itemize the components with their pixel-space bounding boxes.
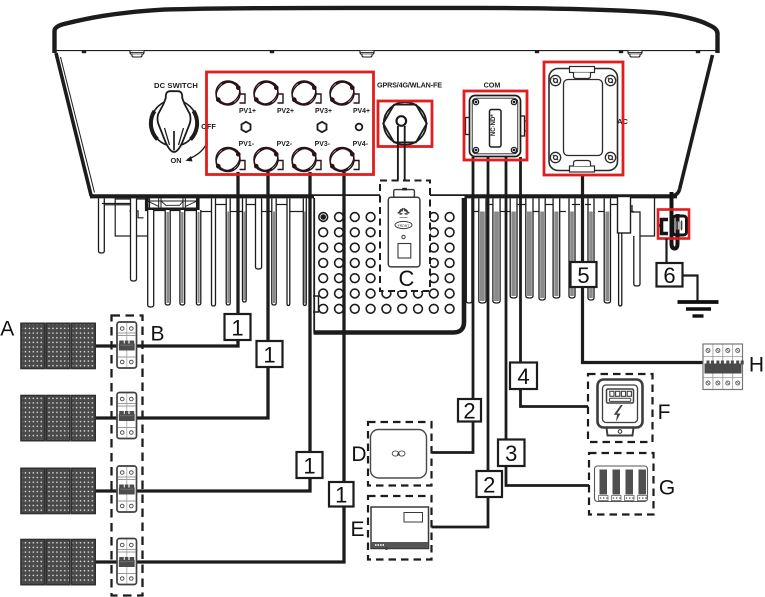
PV panel group 3	[21, 468, 95, 513]
dashed box B (DC breakers)	[112, 316, 143, 596]
PV panel group 4	[21, 540, 95, 585]
svg-text:PV4-: PV4-	[353, 141, 369, 148]
svg-text:F: F	[658, 401, 671, 424]
ground clamp red callout box	[658, 210, 689, 239]
svg-text:4: 4	[517, 364, 529, 389]
svg-text:5: 5	[577, 263, 589, 288]
svg-text:2: 2	[463, 399, 475, 424]
DC breaker 2	[117, 393, 137, 439]
mounting nuts between PV rows	[242, 122, 251, 132]
svg-text:3: 3	[505, 441, 517, 466]
dashed box C	[380, 181, 430, 292]
ground clamp	[659, 216, 687, 235]
svg-text:C: C	[399, 266, 415, 291]
logger device E	[371, 507, 429, 550]
dashed box G	[589, 453, 654, 515]
earth ground symbol	[678, 302, 719, 316]
dashed box F	[588, 374, 653, 442]
svg-text:6: 6	[663, 263, 675, 288]
COM wire to D (monitoring)	[432, 157, 474, 453]
svg-text:FRONT: FRONT	[398, 224, 410, 228]
svg-text:PV2+: PV2+	[277, 108, 294, 115]
PV panel group 2	[21, 396, 95, 441]
mounting bracket recess	[147, 195, 198, 209]
COM wire to G (CT)	[506, 157, 589, 486]
wire string 4 (breaker to PV4-)	[95, 172, 344, 562]
svg-text:1: 1	[303, 453, 315, 478]
svg-text:B: B	[150, 323, 164, 346]
AC red callout box	[544, 62, 623, 175]
box 4 (to F)	[510, 363, 537, 390]
box 2 (to D)	[458, 399, 481, 424]
COM wire to F (meter)	[521, 157, 589, 407]
svg-text:G: G	[659, 477, 675, 500]
box 1 (string 2)	[257, 341, 283, 367]
vent holes grid	[319, 213, 454, 314]
svg-text:DC SWITCH: DC SWITCH	[154, 81, 198, 90]
DC switch knob	[151, 91, 197, 152]
svg-text:PV2-: PV2-	[277, 141, 293, 148]
PV terminals red callout box	[207, 72, 374, 175]
svg-text:NC·ND*: NC·ND*	[491, 114, 497, 136]
box 6	[657, 263, 683, 288]
dashed box E	[368, 496, 432, 560]
dashed box D	[368, 422, 432, 486]
box 5	[571, 262, 597, 288]
AC breaker H	[703, 344, 744, 390]
wire 6 to earth	[683, 276, 698, 301]
top seam screws	[130, 51, 144, 57]
svg-text:COM: COM	[484, 81, 501, 90]
svg-text:PV4+: PV4+	[353, 108, 370, 115]
monitoring device D	[371, 430, 427, 479]
vent plate	[313, 196, 465, 334]
box 1 (string 3)	[297, 452, 323, 478]
GPRS red callout box	[378, 101, 432, 147]
seam tick marks	[82, 50, 86, 53]
box 1 (string 1)	[225, 314, 251, 340]
box 2 (to E)	[477, 471, 503, 497]
svg-text:1: 1	[263, 342, 275, 367]
svg-text:E: E	[350, 518, 364, 541]
COM connector	[466, 96, 527, 157]
svg-text:GPRS/4G/WLAN-FE: GPRS/4G/WLAN-FE	[377, 81, 442, 90]
svg-text:H: H	[749, 354, 764, 377]
CT block G	[595, 466, 648, 502]
PV terminal labels	[239, 108, 370, 148]
inverter enclosure outline	[55, 8, 718, 196]
box 3 (to G)	[498, 440, 525, 467]
box 1 (string 4)	[329, 482, 354, 508]
heatsink fins right	[466, 198, 654, 306]
heatsink boss over wires	[618, 197, 631, 234]
PV terminal connectors	[212, 77, 359, 175]
DC breaker 4	[117, 539, 137, 585]
heatsink fins left	[99, 199, 307, 308]
ground lug hook	[672, 192, 678, 249]
GPRS antenna gland	[383, 102, 427, 145]
wire clamp to 6	[665, 239, 667, 264]
PV panel group 1	[21, 323, 95, 368]
wire string 3 (breaker to PV3-)	[95, 172, 310, 491]
COM red callout box	[464, 91, 527, 160]
svg-text:1: 1	[231, 315, 243, 340]
DC breaker 1	[117, 322, 137, 368]
svg-text:PV1+: PV1+	[239, 108, 256, 115]
ON-OFF arrow arc	[188, 142, 208, 160]
DC breaker 3	[117, 466, 137, 512]
svg-text:PV1-: PV1-	[239, 141, 255, 148]
AC wire to H breaker	[583, 175, 704, 363]
svg-text:D: D	[351, 443, 366, 466]
svg-text:OFF: OFF	[201, 122, 216, 131]
smart dongle C	[388, 188, 420, 267]
wire string 2 (breaker to PV2-)	[95, 172, 268, 418]
svg-text:ON: ON	[170, 156, 181, 165]
svg-text:1: 1	[335, 483, 347, 508]
svg-text:PV3-: PV3-	[315, 141, 331, 148]
svg-text:PV3+: PV3+	[315, 108, 332, 115]
COM wire to E (logger)	[432, 157, 489, 527]
energy meter F	[598, 380, 643, 436]
AC connector	[549, 67, 618, 173]
svg-text:2: 2	[483, 472, 495, 497]
svg-text:A: A	[0, 318, 14, 341]
wire string 1 (breaker to PV1-)	[95, 172, 238, 346]
antenna stem	[398, 126, 405, 190]
